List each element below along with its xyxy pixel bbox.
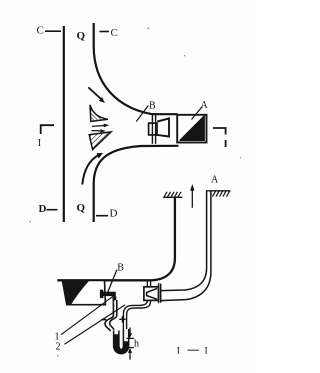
svg-text:I: I — [38, 138, 41, 149]
svg-text:Q: Q — [77, 30, 86, 42]
nozzle body box — [144, 287, 159, 301]
flow arrow small 1 — [92, 125, 105, 128]
svg-text:2: 2 — [56, 342, 61, 353]
svg-text:h: h — [134, 339, 139, 350]
svg-text:A: A — [211, 175, 219, 186]
svg-text:I: I — [177, 347, 180, 357]
svg-text:I: I — [205, 347, 208, 357]
separation wedge upper (hatched) — [90, 105, 108, 122]
svg-text:C: C — [37, 25, 44, 37]
streamline arrow (upper, into branch) — [88, 87, 101, 99]
leader wire from 1 to bracket — [61, 296, 113, 334]
separation wedge lower (hatched) — [89, 132, 111, 150]
leader wire from B to bracket — [107, 270, 117, 294]
svg-text:Q: Q — [77, 202, 86, 214]
wire: dash from C to left wall — [45, 30, 61, 32]
wire: dash to D (bottom right) — [96, 215, 108, 217]
horn cone — [157, 118, 169, 136]
speckles — [30, 28, 242, 357]
mercury fill — [114, 334, 129, 353]
caption I - I — [177, 347, 208, 357]
minus sign — [101, 319, 106, 321]
wire: channel floor line merging into left piezometer pipe — [57, 197, 175, 280]
wire: lower branch curve (right wall lower part) — [94, 146, 179, 222]
static tap bracket (part 1) — [100, 290, 103, 298]
minus tube from bracket down to manometer — [105, 300, 113, 331]
section mark I (left) — [41, 125, 54, 134]
connection flange plate — [158, 283, 160, 303]
black wedge fill of block A — [180, 116, 205, 141]
svg-text:D: D — [39, 203, 47, 215]
up arrow (flow direction in pipes) — [191, 189, 193, 208]
wire: dash to C (top right) — [100, 31, 110, 33]
svg-text:D: D — [110, 208, 118, 220]
dimension h ticks and arrows — [126, 337, 134, 339]
support hatching (right pipe hanger) — [206, 191, 231, 197]
pipe A (double-walled tube down to nozzle) — [160, 191, 206, 291]
svg-text:C: C — [111, 27, 118, 39]
block A (plan view rectangle) — [177, 115, 206, 143]
flow arrow small 2 — [92, 130, 102, 132]
U-tube manometer — [114, 329, 129, 354]
plus sign — [119, 318, 125, 320]
section mark I (right) — [213, 128, 226, 147]
leader wire from B — [136, 106, 148, 122]
svg-text:B: B — [117, 262, 124, 273]
mast to floor — [146, 281, 148, 287]
svg-text:B: B — [149, 101, 156, 112]
nozzle assembly (section view) — [144, 281, 161, 304]
streamline curved arrow (lower, into branch) — [82, 155, 99, 185]
pitot horn device B (plan view) — [149, 113, 169, 144]
svg-text:A: A — [201, 100, 209, 111]
wire: dash after D — [47, 209, 58, 211]
wire: left channel wall (vertical) — [63, 26, 65, 222]
support hatching (left pipe hanger) — [163, 192, 182, 198]
mast double lines — [151, 113, 153, 144]
body box — [149, 123, 157, 135]
leader wire from 2 to plus tube — [65, 305, 126, 344]
wire: right channel wall upper part curving into branch — [94, 23, 178, 114]
plus tube from nozzle down to manometer — [123, 301, 147, 330]
horn cone (side view, pointing left) — [147, 288, 157, 299]
leader wire from A — [192, 107, 203, 120]
wall block (section, black cut) — [62, 280, 105, 304]
